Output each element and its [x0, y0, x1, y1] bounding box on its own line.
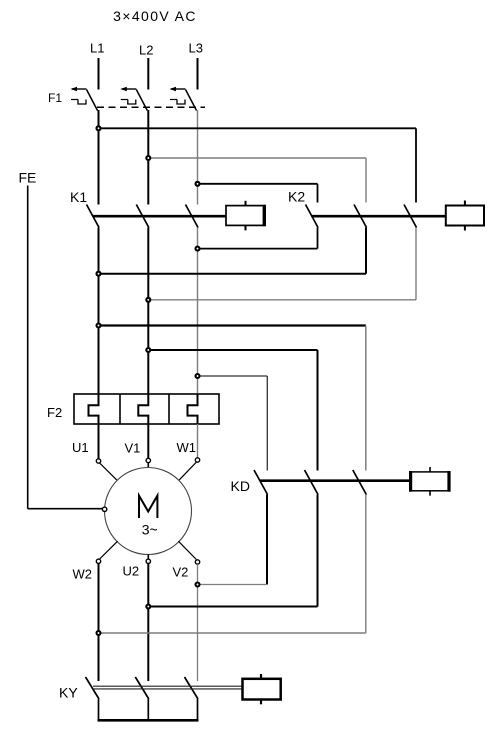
- svg-text:KD: KD: [231, 478, 250, 494]
- wire PE to motor frame: [28, 186, 103, 509]
- svg-text:L2: L2: [139, 43, 153, 58]
- contactor K2 contact pole 2: [354, 205, 367, 228]
- wire K2 pole 1 output to L3: [198, 228, 318, 249]
- overload relay F2 heater pole 2: [138, 394, 148, 424]
- svg-text:K1: K1: [70, 189, 87, 205]
- contactor K1 contact pole 1: [87, 205, 100, 228]
- breaker F1 pole 1: [71, 87, 98, 111]
- wire KY pole 2 to star bar: [147, 699, 149, 720]
- breaker F1 pole 3: [170, 87, 197, 111]
- node junction L1 tap: [97, 126, 101, 130]
- contactor KY contact pole 1: [86, 677, 100, 699]
- svg-text:FE: FE: [19, 170, 37, 186]
- wire KY pole 3 to star bar: [197, 699, 199, 720]
- node junction KD output on V2: [196, 583, 200, 587]
- svg-text:V1: V1: [125, 441, 141, 456]
- contactor KD linkage: [260, 479, 410, 482]
- wire KD pole 1 output to V2: [198, 495, 268, 585]
- node junction L2 lower tap: [146, 348, 150, 352]
- contactor K2 contact pole 1: [306, 205, 319, 228]
- node junction K2 output on L2: [146, 298, 150, 302]
- contactor KY linkage (double line): [93, 686, 243, 689]
- wire KY pole 1 to star bar: [98, 699, 100, 720]
- wire L1 between F1 and K1: [98, 110, 100, 205]
- contactor K2 linkage: [312, 215, 446, 218]
- wire motor to terminal V2: [178, 541, 196, 559]
- wire K2 pole 2 output to L1: [99, 228, 367, 274]
- svg-text:W2: W2: [73, 567, 93, 582]
- wire KD pole 3 output to W2: [99, 495, 366, 634]
- wire F2 to motor terminal W1: [197, 424, 199, 458]
- overload relay F2 heater pole 3: [188, 394, 198, 424]
- wire L3 supply stub: [197, 58, 199, 90]
- svg-text:U2: U2: [123, 564, 140, 579]
- wire L3 K1 to F2: [197, 228, 199, 395]
- contactor K1 contact pole 2: [136, 205, 149, 228]
- node junction L3 lower tap: [196, 374, 200, 378]
- wire L1 supply stub: [98, 58, 100, 90]
- wire U1 to motor: [100, 463, 118, 481]
- contactor KD coil: [410, 467, 450, 496]
- wire tap L3 to KD pole 1: [198, 376, 268, 471]
- wire tap L1 to KD pole 3: [99, 326, 366, 471]
- node junction K2 output on L3: [196, 247, 200, 251]
- wire motor to terminal U2: [147, 555, 149, 560]
- motor terminal V1: [146, 458, 150, 462]
- svg-text:W1: W1: [177, 440, 197, 455]
- wire tap L2 to K2 pole 2: [148, 158, 366, 203]
- motor frame terminal: [102, 507, 106, 511]
- contactor K2 contact pole 3: [404, 205, 417, 228]
- contactor KY contact pole 3: [185, 677, 199, 699]
- wire V1 to motor: [147, 463, 149, 468]
- wire L2 supply stub: [147, 58, 149, 90]
- svg-text:U1: U1: [72, 440, 89, 455]
- wire U2 down to KY: [147, 564, 149, 682]
- wire V2 down to KY: [197, 564, 199, 681]
- wire KD pole 2 output to U2: [148, 495, 317, 607]
- svg-text:V2: V2: [173, 565, 189, 580]
- wire tap L1 to K2 pole 3: [99, 128, 417, 202]
- wire L2 between F1 and K1: [147, 110, 149, 205]
- wire F2 to motor terminal V1: [147, 424, 149, 458]
- contactor KD contact pole 3: [353, 470, 367, 495]
- wire tap L2 to KD pole 2: [148, 350, 317, 471]
- contactor K1 contact pole 3: [186, 205, 199, 228]
- node junction KD output on W2: [97, 631, 101, 635]
- svg-text:KY: KY: [59, 685, 78, 701]
- star point bar: [98, 719, 199, 722]
- wire W2 down to KY: [98, 564, 100, 682]
- contactor KD contact pole 2: [305, 470, 319, 495]
- node junction L1 lower tap: [97, 324, 101, 328]
- contactor KD contact pole 1: [254, 470, 268, 495]
- contactor K1 linkage: [93, 215, 226, 218]
- wire motor to terminal W2: [100, 541, 118, 559]
- wire L3 between F1 and K1: [197, 110, 199, 205]
- wire W1 to motor: [178, 462, 196, 481]
- motor M1 body: [105, 468, 192, 555]
- wire F2 to motor terminal U1: [98, 424, 100, 459]
- motor M1 letter: [139, 496, 157, 518]
- breaker F1 pole 2: [120, 87, 147, 111]
- motor terminal V2: [195, 560, 199, 564]
- wire L2 K1 to F2: [147, 228, 149, 395]
- wire L1 K1 to F2: [98, 228, 100, 395]
- svg-text:K2: K2: [288, 189, 305, 205]
- motor terminal U2: [146, 559, 150, 563]
- wire tap L3 to K2 pole 1: [198, 184, 318, 203]
- node junction L2 tap: [146, 156, 150, 160]
- contactor K2 coil: [446, 201, 484, 231]
- contactor K1 coil: [226, 201, 265, 231]
- svg-text:3×400V AC: 3×400V AC: [113, 8, 197, 24]
- motor terminal W1: [195, 458, 199, 462]
- motor terminal U1: [96, 459, 100, 463]
- wire K2 pole 3 output to L2: [148, 228, 416, 300]
- overload relay F2 heater pole 1: [89, 394, 99, 424]
- svg-text:L1: L1: [90, 41, 104, 56]
- node junction L3 tap: [196, 182, 200, 186]
- node junction KD output on U2: [146, 605, 150, 609]
- svg-text:3~: 3~: [142, 522, 158, 538]
- svg-text:F2: F2: [47, 405, 62, 420]
- contactor KY coil: [243, 674, 281, 704]
- breaker F1 trip linkage (dashed): [97, 106, 205, 108]
- overload relay F2 body: [74, 394, 219, 424]
- contactor KY contact pole 2: [135, 677, 149, 699]
- svg-text:L3: L3: [189, 41, 203, 56]
- motor terminal W2: [96, 559, 100, 563]
- svg-text:F1: F1: [48, 91, 62, 105]
- node junction K2 output on L1: [97, 272, 101, 276]
